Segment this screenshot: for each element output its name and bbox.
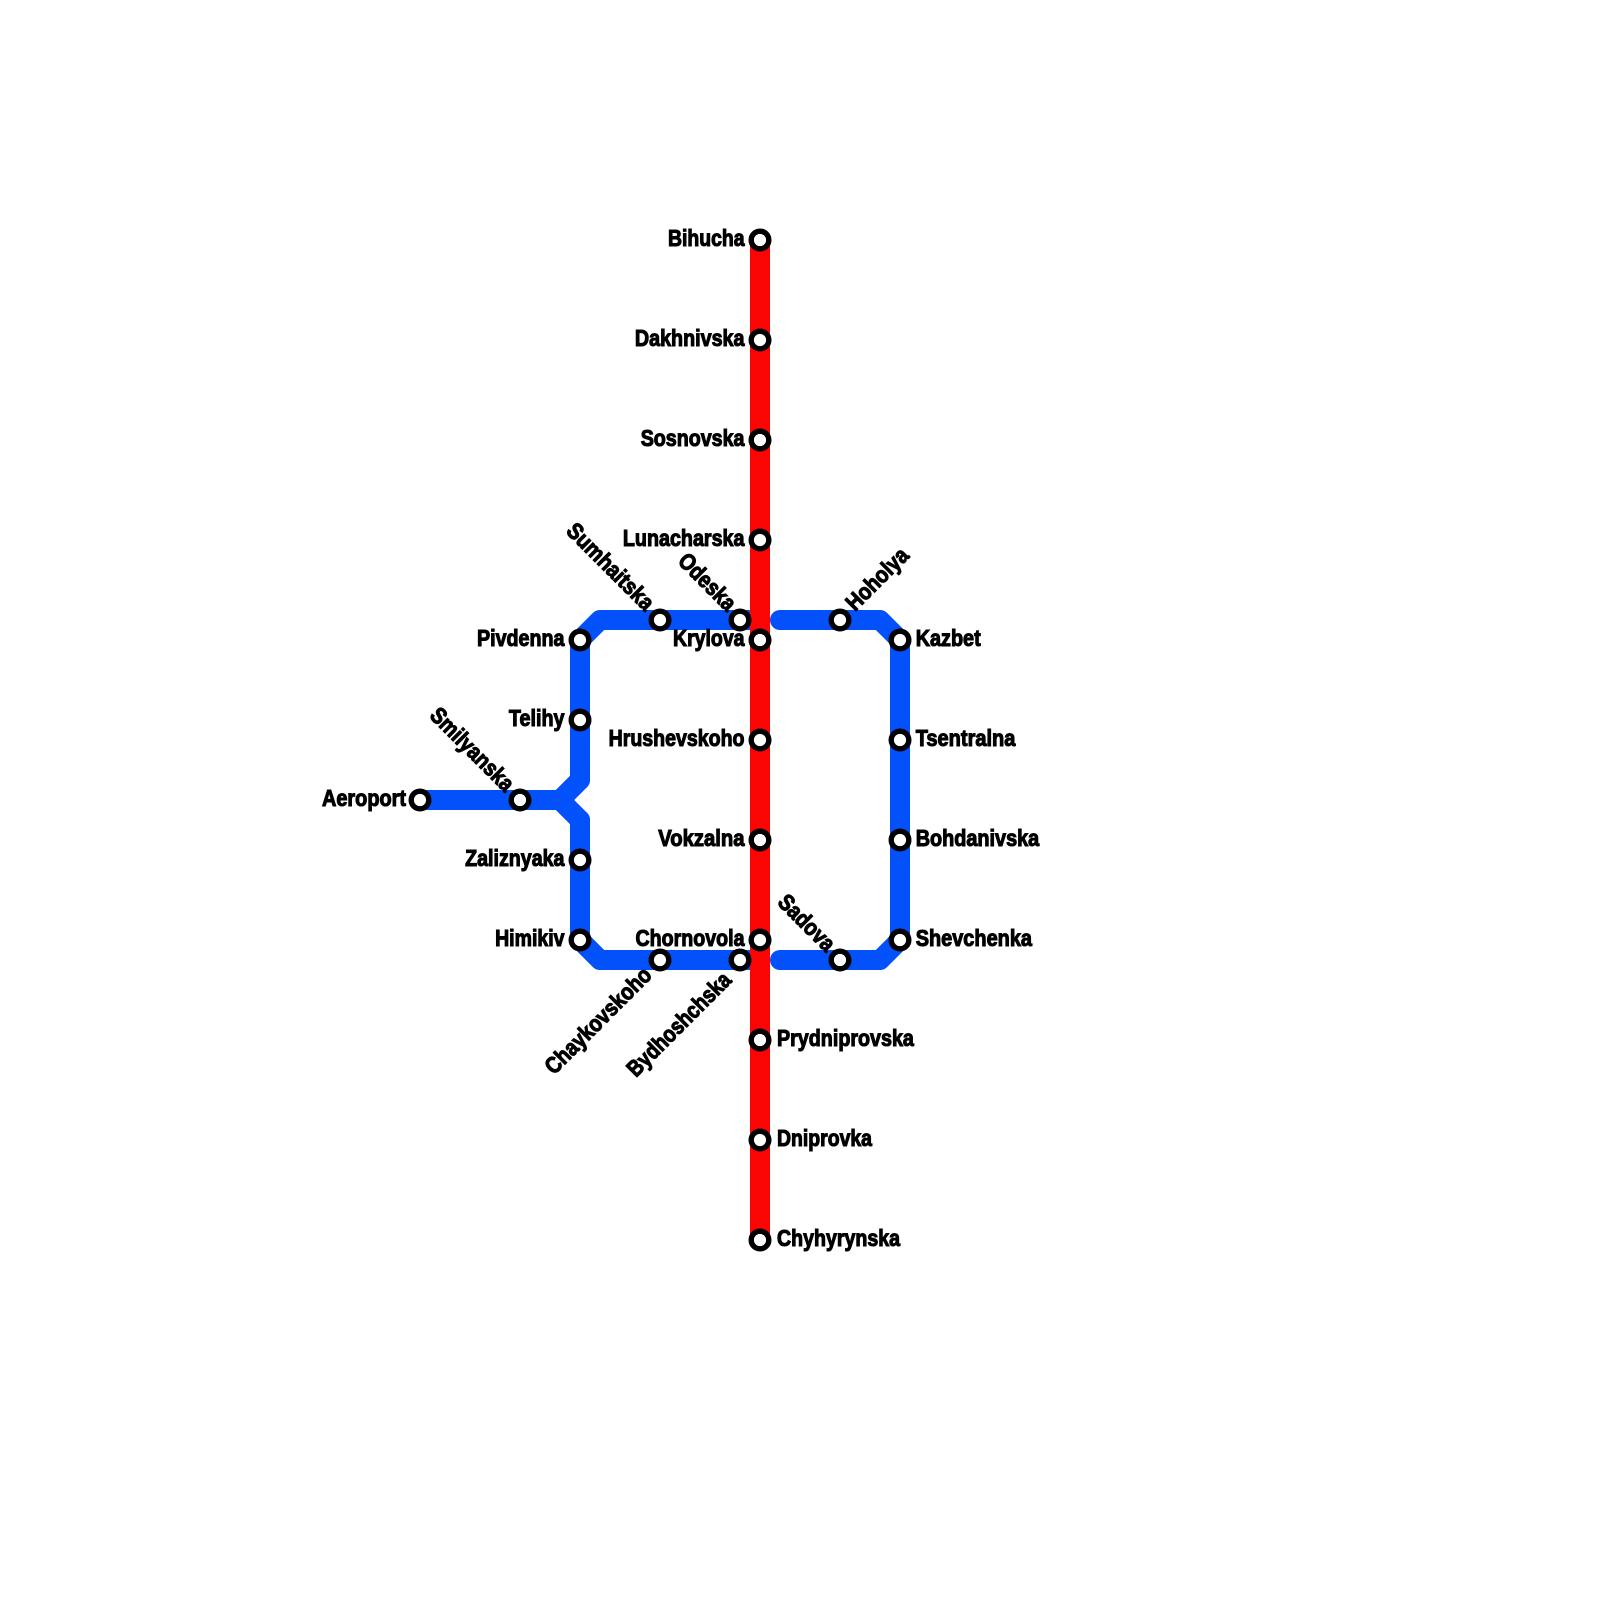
wire blue loop west arc lower xyxy=(580,820,754,960)
node Bydhoshchska xyxy=(731,951,749,969)
node Sosnovska xyxy=(751,431,769,449)
svg-text:Lunacharska: Lunacharska xyxy=(623,525,745,551)
wire blue loop west arc upper xyxy=(580,620,754,780)
svg-text:Aeroport: Aeroport xyxy=(322,785,406,811)
node Bohdanivska xyxy=(891,831,909,849)
node Prydniprovska xyxy=(751,1031,769,1049)
node Chaykovskoho xyxy=(651,951,669,969)
node Chornovola xyxy=(751,931,769,949)
svg-text:Bohdanivska: Bohdanivska xyxy=(916,825,1040,851)
node Vokzalna xyxy=(751,831,769,849)
node Sumhaitska xyxy=(651,611,669,629)
svg-text:Bihucha: Bihucha xyxy=(668,225,745,251)
svg-text:Dakhnivska: Dakhnivska xyxy=(635,325,745,351)
node Aeroport xyxy=(411,791,429,809)
node Tsentralna xyxy=(891,731,909,749)
node Zaliznyaka xyxy=(571,851,589,869)
wire red line 1 xyxy=(750,240,770,1240)
svg-text:Prydniprovska: Prydniprovska xyxy=(777,1025,914,1051)
svg-text:Zaliznyaka: Zaliznyaka xyxy=(465,845,565,871)
node Sadova xyxy=(831,951,849,969)
node Lunacharska xyxy=(751,531,769,549)
svg-text:Shevchenka: Shevchenka xyxy=(916,925,1032,951)
node Krylova xyxy=(751,631,769,649)
node Pivdenna xyxy=(571,631,589,649)
node Odeska xyxy=(731,611,749,629)
node Hrushevskoho xyxy=(751,731,769,749)
node Himikiv xyxy=(571,931,589,949)
svg-text:Himikiv: Himikiv xyxy=(495,925,565,951)
svg-text:Krylova: Krylova xyxy=(673,625,745,651)
node Dakhnivska xyxy=(751,331,769,349)
svg-text:Telihy: Telihy xyxy=(509,705,565,731)
wire blue airport branch upper diagonal xyxy=(420,780,580,800)
svg-text:Pivdenna: Pivdenna xyxy=(477,625,565,651)
node Hoholya xyxy=(831,611,849,629)
node Smilyanska xyxy=(511,791,529,809)
wire blue loop east arc xyxy=(780,620,900,960)
svg-text:Hrushevskoho: Hrushevskoho xyxy=(609,725,745,751)
node Chyhyrynska xyxy=(751,1231,769,1249)
svg-text:Kazbet: Kazbet xyxy=(916,625,981,651)
node Kazbet xyxy=(891,631,909,649)
node Shevchenka xyxy=(891,931,909,949)
svg-text:Sosnovska: Sosnovska xyxy=(641,425,745,451)
svg-text:Tsentralna: Tsentralna xyxy=(916,725,1016,751)
svg-text:Chyhyrynska: Chyhyrynska xyxy=(777,1225,900,1251)
svg-text:Chornovola: Chornovola xyxy=(636,925,745,951)
svg-text:Vokzalna: Vokzalna xyxy=(658,825,744,851)
node Dniprovka xyxy=(751,1131,769,1149)
node Telihy xyxy=(571,711,589,729)
node Bihucha xyxy=(751,231,769,249)
svg-text:Dniprovka: Dniprovka xyxy=(777,1125,872,1151)
wire blue airport branch lower diagonal xyxy=(560,800,580,820)
